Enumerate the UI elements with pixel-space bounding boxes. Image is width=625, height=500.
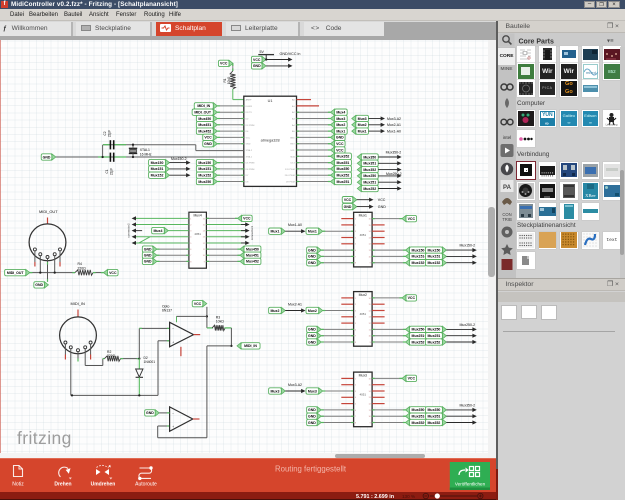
splitter <box>496 21 498 500</box>
wire to opto minus input <box>139 327 169 329</box>
wire DIN-in pin1 stub <box>64 344 66 360</box>
wire arrow Mux351 <box>446 414 476 418</box>
wire GND to Mux2 row6 <box>321 328 353 330</box>
wire XTAL1 rail <box>56 156 244 158</box>
svg-text:SDA: SDA <box>290 155 295 158</box>
net flag Mux1 (arrow cluster) <box>352 128 369 134</box>
resistor R3 10k <box>207 315 232 330</box>
svg-text:Mux3: Mux3 <box>358 117 367 121</box>
wire unrouted Mux2 right row2 <box>372 303 385 305</box>
wire crystal gnd link <box>102 145 104 157</box>
svg-text:Mux152: Mux152 <box>428 261 441 265</box>
wire arrow Mux152 <box>446 261 476 265</box>
svg-text:Mux350: Mux350 <box>337 167 350 171</box>
net flag VCC (Mux2) <box>402 295 417 301</box>
wire node down to buffer <box>206 346 208 438</box>
net flag Mux251 (a) <box>406 333 427 339</box>
wire GND to Mux3 row6 <box>321 409 353 411</box>
net flag Mux150 (U1 left) <box>196 159 217 165</box>
net flag Mux450 (Mux4) <box>240 246 261 252</box>
svg-text:−: − <box>172 327 174 331</box>
svg-text:GND: GND <box>246 144 251 146</box>
net flag Mux252 (U1 right) <box>331 172 352 178</box>
svg-text:Mux251: Mux251 <box>412 334 425 338</box>
net flag Mux252 (a) <box>406 339 427 345</box>
wire unrouted Mux1 right row3 <box>372 230 385 232</box>
svg-text:Mux251: Mux251 <box>428 334 441 338</box>
wire Mux2 to Mux252 <box>372 341 405 343</box>
svg-text:Opto: Opto <box>162 304 169 308</box>
svg-text:Mux152: Mux152 <box>198 174 211 178</box>
wire arrow Mux150 left cluster <box>170 161 191 165</box>
svg-text:MIDI_IN: MIDI_IN <box>197 104 210 108</box>
wire R1 to U1 pin1 <box>233 89 244 100</box>
node text Mux350-2 <box>460 404 476 408</box>
wire unrouted Mux1 row4 <box>341 237 353 239</box>
svg-text:Mux150: Mux150 <box>151 161 164 165</box>
junction (vcc rail) <box>206 315 208 317</box>
wire R2 to D2 junction <box>121 358 140 360</box>
net flag Mux4 (chip input) <box>152 227 189 233</box>
svg-text:TRIB: TRIB <box>502 217 512 222</box>
node text connector1 <box>250 225 254 240</box>
wire unrouted U1 A1 stub <box>297 105 320 107</box>
net flag Mux151 (a) <box>406 253 427 259</box>
svg-text:D0/RX: D0/RX <box>246 106 253 108</box>
wire DIN-in pin5 stub <box>90 344 92 360</box>
net flag Mux3 (left a) <box>269 388 286 394</box>
wire arrow connector2 row1 <box>132 216 136 220</box>
svg-text:GND: GND <box>344 205 352 209</box>
net flag VCC (mid) <box>342 197 357 203</box>
wire Mux4 to VCC <box>206 217 237 219</box>
svg-text:Mux4: Mux4 <box>153 229 162 233</box>
svg-text:Mux150-2: Mux150-2 <box>460 244 476 248</box>
wire GND to arrow <box>266 64 293 68</box>
wire arrow Mux350 <box>446 408 476 412</box>
wire Mux2 to Mux250 <box>372 328 405 330</box>
svg-text:6N137: 6N137 <box>162 309 172 313</box>
wire arrow Mux350 <box>378 155 401 159</box>
wire VCC to arrow <box>265 57 292 61</box>
svg-text:GND: GND <box>253 64 261 68</box>
net flag Mux350 (a) <box>406 407 427 413</box>
wire Mux3 to Mux350 <box>372 409 405 411</box>
svg-text:Mux450: Mux450 <box>246 247 259 251</box>
svg-text:XTAL1: XTAL1 <box>140 148 150 152</box>
svg-text:Mux150: Mux150 <box>412 248 425 252</box>
wire Mux4 out row4 <box>206 236 245 238</box>
net flag VCC (opto) <box>192 300 207 306</box>
svg-text:VCC: VCC <box>408 296 416 300</box>
node text Mux2-A1 <box>387 123 401 127</box>
svg-text:PA: PA <box>503 185 512 191</box>
net flag Mux251 (U1 right) <box>331 178 352 184</box>
svg-text:Mux2: Mux2 <box>308 309 317 313</box>
svg-text:▾≡: ▾≡ <box>607 39 614 45</box>
svg-text:Mux152: Mux152 <box>151 174 164 178</box>
net flag Mux151 (U1 left) <box>196 166 217 172</box>
wire GND to Mux1 row8 <box>321 262 353 264</box>
svg-text:16 MHz: 16 MHz <box>140 152 152 156</box>
svg-text:Mux452: Mux452 <box>198 129 211 133</box>
svg-text:GND: GND <box>144 260 152 264</box>
svg-text:1N4001: 1N4001 <box>144 360 156 364</box>
svg-text:GND: GND <box>204 142 212 146</box>
junction (xtal1) <box>132 156 134 158</box>
wire Mux1 to Mux151 <box>372 255 405 257</box>
wire Mux150 link <box>425 249 432 251</box>
wire buffer output unrouted <box>193 418 200 420</box>
wire Mux4 out row3 <box>206 230 245 232</box>
wire Mux2 to chip <box>323 310 354 312</box>
menu bar <box>0 9 625 21</box>
op-amp buffer U3 <box>170 407 193 431</box>
wire unrouted Mux1 right row2 <box>372 224 385 226</box>
net flag Mux352 (a) <box>406 419 427 425</box>
svg-text:GND: GND <box>308 334 316 338</box>
wire U1 to Mux352 <box>297 155 331 157</box>
svg-text:Mux350: Mux350 <box>363 155 376 159</box>
wire arrow Mux150 <box>446 248 476 252</box>
svg-text:Mux150: Mux150 <box>428 248 441 252</box>
op-amp opto 6N137 <box>162 304 194 347</box>
svg-text:U1: U1 <box>268 99 273 103</box>
net flag MIDI_IN (U1 left) <box>194 103 217 109</box>
wire DIN-out pin4 leg <box>54 256 56 273</box>
svg-text:Mux351: Mux351 <box>337 161 350 165</box>
svg-text:Mux1-A0: Mux1-A0 <box>387 129 401 133</box>
net flag Mux350 (b) <box>425 407 446 413</box>
net flag Mux251 (b) <box>425 333 446 339</box>
svg-text:10kΩ: 10kΩ <box>227 76 231 84</box>
svg-text:Mux2: Mux2 <box>359 293 367 297</box>
wire U1 to VCC <box>297 149 331 151</box>
svg-text:Mux1: Mux1 <box>308 230 317 234</box>
wire arrow Mux3 <box>285 389 305 393</box>
svg-text:GND: GND <box>308 340 316 344</box>
svg-text:Mux2: Mux2 <box>270 309 279 313</box>
net flag Mux351 (U1 arrow cluster) <box>357 160 378 166</box>
wire opto bottom unrouted <box>180 347 182 356</box>
wire Mux3 to chip <box>323 390 354 392</box>
wire opto vcc stub <box>176 316 178 322</box>
junction (rail a) <box>71 394 73 396</box>
net flag Mux152 (a) <box>406 260 427 266</box>
net flag Mux1 (U1 right) <box>331 128 348 134</box>
node text connector2 <box>127 223 131 238</box>
wire Mux151 to U1 <box>217 168 244 170</box>
net flag VCC (Mux3) <box>402 375 417 381</box>
svg-text:Mux351: Mux351 <box>428 415 441 419</box>
wire buffer bottom path <box>158 426 207 438</box>
wire arrow Mux4 out row5 <box>241 241 250 245</box>
svg-text:VCC: VCC <box>408 217 416 221</box>
wire Mux450 to U1 <box>217 118 244 120</box>
wire Mux251 link <box>425 335 432 337</box>
svg-text:Mux3: Mux3 <box>308 389 317 393</box>
svg-text:Mux1: Mux1 <box>270 230 279 234</box>
svg-text:Mux3-A2: Mux3-A2 <box>387 117 401 121</box>
wire DIN-out gnd leg <box>47 259 49 282</box>
net flag GND (Mux4 row7) <box>142 252 157 258</box>
svg-text:Mux350: Mux350 <box>428 408 441 412</box>
wire GND to Mux1 row6 <box>321 249 353 251</box>
net flag GND (Mux4 row8) <box>142 258 157 264</box>
wire DIN-out pin5 stub <box>59 251 61 267</box>
wire Mux3 to VCC <box>372 377 402 379</box>
svg-text:D6 PWM: D6 PWM <box>246 169 255 171</box>
net flag Mux250 (b) <box>425 326 446 332</box>
svg-text:Mux451: Mux451 <box>246 254 259 258</box>
svg-text:Mux1: Mux1 <box>358 129 367 133</box>
net flag GND (Mux1 row7) <box>307 253 322 259</box>
wire unrouted Mux2 right row3 <box>372 310 385 312</box>
wire R3 down to MIDI_IN node <box>230 328 232 346</box>
net flag Mux250 (U1 left) <box>196 178 217 184</box>
wire DIN-out pin1 stub <box>34 251 36 267</box>
net flag GND (Mux2 row8) <box>307 339 322 345</box>
wire connector2 row4 <box>136 236 189 238</box>
svg-text:C2: C2 <box>103 131 107 135</box>
wire U1 to Mux3 <box>297 118 331 120</box>
svg-text:VCC: VCC <box>246 137 251 139</box>
mux IC Mux1 4051 <box>354 212 373 267</box>
svg-text:VCC: VCC <box>204 136 212 140</box>
wire Mux250 to U1 <box>217 181 244 183</box>
net flag Mux350 (U1 right) <box>331 166 352 172</box>
svg-text:RST: RST <box>290 144 295 146</box>
net flag Mux451 (U1 left) <box>196 122 217 128</box>
svg-text:Mux4: Mux4 <box>336 111 345 115</box>
wire GND to Mux3 row8 <box>321 422 353 424</box>
wire DIN-in pin3 stub <box>77 352 79 362</box>
wire unrouted Mux2 row5 <box>341 322 353 324</box>
net flag VCC (R4) <box>104 269 119 275</box>
wire Mux252 link <box>425 341 432 343</box>
wire U1 to Mux1 <box>297 130 331 132</box>
svg-text:Mux3: Mux3 <box>359 373 367 377</box>
wire Mux451 to U1 <box>217 124 244 126</box>
net flag Mux152 (left cluster) <box>149 172 170 178</box>
net flag GND (Mux4 row6) <box>142 246 157 252</box>
node text Mux250-2 (upper) <box>386 172 402 176</box>
wire unrouted Mux3 right row2 <box>372 384 385 386</box>
connector MIDI_IN DIN-5 <box>60 301 97 354</box>
wire unrouted Mux2 row4 <box>341 316 353 318</box>
wire Mux2 to Mux251 <box>372 335 405 337</box>
wire Mux4 to Mux451 <box>206 254 240 256</box>
svg-text:Mux1-A0: Mux1-A0 <box>288 223 302 227</box>
resistor R1 10k <box>223 71 236 89</box>
wire arrow connector2 row3 <box>132 229 143 233</box>
junction (xtal2) <box>132 144 134 146</box>
net flag VCC (U1 right) <box>331 141 346 147</box>
net flag GND (mid) <box>342 203 357 209</box>
net flag Mux350 (U1 arrow cluster) <box>357 154 378 160</box>
wire U1 to Mux252 <box>297 174 331 176</box>
wire arrow Mux152 left cluster <box>170 173 191 177</box>
svg-text:Mux451: Mux451 <box>198 123 211 127</box>
svg-text:22pF: 22pF <box>110 168 114 175</box>
svg-text:VCC: VCC <box>194 302 202 306</box>
tab bar <box>0 21 497 36</box>
net flag MIDI_OUT <box>5 269 30 275</box>
svg-text:atmega328: atmega328 <box>261 138 280 142</box>
status strip <box>0 492 498 500</box>
wire unrouted Mux3 right row4 <box>372 396 385 398</box>
wire Mux4 to Mux450 <box>206 248 240 250</box>
wire Mux4 out row2 <box>206 224 245 226</box>
net flag Mux352 (U1 arrow cluster) <box>357 166 378 172</box>
resistor R2 220 <box>105 350 121 361</box>
svg-text:Veröffentlichen: Veröffentlichen <box>455 481 486 486</box>
svg-text:mbed: mbed <box>586 70 596 75</box>
svg-text:connector2: connector2 <box>127 223 131 238</box>
net flag MIDI_IN <box>237 343 260 349</box>
wire MIDI_IN to U1 <box>217 105 244 107</box>
node text Mux1-A0 <box>387 129 401 133</box>
svg-text:+: + <box>172 341 174 345</box>
wire unrouted Mux1 right row4 <box>372 237 385 239</box>
svg-text:Mux150-2: Mux150-2 <box>171 157 187 161</box>
svg-text:VCC: VCC <box>408 377 416 381</box>
wire MIDI_OUT to R4 <box>30 271 75 273</box>
svg-text:Mux252: Mux252 <box>363 187 376 191</box>
net flag Mux151 (b) <box>425 253 446 259</box>
svg-text:VCC: VCC <box>378 198 386 202</box>
net flag Mux3 (left b) <box>306 388 323 394</box>
svg-text:Notiz: Notiz <box>12 481 24 487</box>
right panel <box>498 21 625 500</box>
wire unrouted Mux3 row4 <box>341 396 353 398</box>
wire Mux250 link <box>425 328 432 330</box>
svg-text:−: − <box>172 412 174 416</box>
svg-text:4051: 4051 <box>360 312 367 316</box>
net flag Mux3 (U1 right) <box>331 115 348 121</box>
svg-text:Mux2-A1: Mux2-A1 <box>288 303 302 307</box>
svg-text:Mux3: Mux3 <box>270 389 279 393</box>
svg-text:GND: GND <box>146 411 154 415</box>
net flag VCC (Mux4) <box>238 215 253 221</box>
junction (cap gnd) <box>101 156 103 158</box>
wire U1 to Mux251 <box>297 181 331 183</box>
junction (rail b) <box>138 394 140 396</box>
svg-text:GND: GND <box>308 261 316 265</box>
svg-text:D1/TX: D1/TX <box>246 112 253 114</box>
wire arrow Mux4 out row4 <box>241 235 250 239</box>
svg-text:Mux452: Mux452 <box>246 260 259 264</box>
op IC U1 atmega328 <box>244 96 297 186</box>
net flag GND (Mux2 row6) <box>307 326 322 332</box>
svg-text:Mux151: Mux151 <box>151 167 164 171</box>
wire arrow Mux3-A2 <box>368 116 385 120</box>
net flag Mux451 (Mux4) <box>240 252 261 258</box>
svg-text:GND: GND <box>336 136 344 140</box>
wire arrow connector2 row5 <box>132 241 136 245</box>
wire arrow GND mid <box>357 205 374 209</box>
wire GND to Mux2 row8 <box>321 341 353 343</box>
svg-text:4051: 4051 <box>360 233 367 237</box>
wire vcc rail to opto <box>177 315 207 317</box>
wire unrouted Mux2 right row5 <box>372 322 385 324</box>
wire arrow Mux1 <box>285 229 305 233</box>
net flag VCC (Mux1) <box>402 215 417 221</box>
svg-text:MIDI_IN: MIDI_IN <box>71 301 85 306</box>
wire GND to Mux2 row7 <box>321 335 353 337</box>
wire unrouted Mux3 right row3 <box>372 390 385 392</box>
svg-text:Drehen: Drehen <box>54 481 71 487</box>
node text Mux150-2 (left) <box>171 157 187 161</box>
net flag Mux452 (U1 left) <box>196 128 217 134</box>
net flag Mux2 (arrow cluster) <box>352 122 369 128</box>
node text Mux150-2 <box>460 244 476 248</box>
svg-text:Mux351: Mux351 <box>412 415 425 419</box>
net flag GND (Mux3 row8) <box>307 419 322 425</box>
svg-text:GND: GND <box>308 255 316 259</box>
wire DIN-out pin2 leg <box>39 256 41 273</box>
svg-text:22pF: 22pF <box>108 130 112 137</box>
wire U1 to Mux4 <box>297 111 331 113</box>
connector MIDI_OUT DIN-5 <box>29 209 66 261</box>
svg-text:Mux351: Mux351 <box>363 162 376 166</box>
net flag GND (crystal) <box>41 154 56 160</box>
fritzing watermark <box>17 428 72 449</box>
net flag GND (buffer) <box>145 410 160 416</box>
svg-text:D5 PWM: D5 PWM <box>246 163 255 165</box>
svg-text:4051: 4051 <box>360 393 367 397</box>
node GND/VCC in text <box>280 52 301 56</box>
net flag GND (Mux2 row7) <box>307 333 322 339</box>
wire arrow Mux252 <box>446 340 476 344</box>
net flag MIDI_OUT (U1 left) <box>192 109 217 115</box>
svg-text:Mux2: Mux2 <box>358 123 367 127</box>
svg-text:Mux352: Mux352 <box>428 421 441 425</box>
net flag Mux4 (U1 right) <box>331 109 348 115</box>
net flag GND (U1 left) <box>203 141 218 147</box>
wire unrouted Mux2 right row4 <box>372 316 385 318</box>
wire rail to opto plus <box>158 341 170 396</box>
node text Mux3-A2 <box>387 117 401 121</box>
net flag Mux2 (left a) <box>269 307 286 313</box>
svg-text:Routing fertiggestellt: Routing fertiggestellt <box>275 464 347 473</box>
power +5V symbol <box>258 50 274 60</box>
wire MIDI_OUT to U1 <box>217 111 244 113</box>
wire Mux2 to VCC <box>372 297 402 299</box>
net flag Mux252 (U1 arrow cluster) <box>357 185 378 191</box>
wire GND to U1 <box>217 143 244 145</box>
wire D2 junction up to opto minus <box>138 328 140 358</box>
svg-text:GND: GND <box>308 421 316 425</box>
wire arrow Mux251 <box>446 334 476 338</box>
svg-text:Mux2: Mux2 <box>336 123 345 127</box>
wire U1 to Mux350 <box>297 168 331 170</box>
wire arrow Mux250 <box>446 327 476 331</box>
svg-text:Mux151: Mux151 <box>428 255 441 259</box>
net flag Mux452 (Mux4) <box>240 258 261 264</box>
svg-text:D3 PWM: D3 PWM <box>246 125 255 127</box>
svg-text:VCC: VCC <box>336 142 344 146</box>
net flag Mux150 (left cluster) <box>149 159 170 165</box>
wire arrow Mux4 out row3 <box>241 229 250 233</box>
svg-text:Lindao.org: Lindao.org <box>606 124 618 127</box>
svg-text:Mux252: Mux252 <box>412 340 425 344</box>
node text Mux2 net header <box>288 303 302 307</box>
svg-text:Mux352: Mux352 <box>337 155 350 159</box>
svg-text:VCC: VCC <box>336 148 344 152</box>
wire unrouted Mux2 row2 <box>341 303 353 305</box>
wire arrow connector2 row4 <box>132 235 136 239</box>
